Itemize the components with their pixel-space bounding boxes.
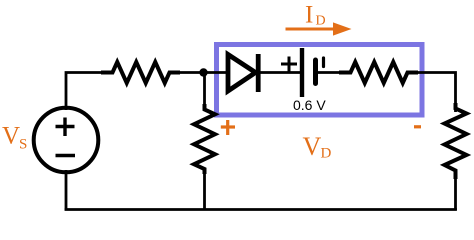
node junction dot (199, 68, 207, 76)
wire top-left vertical from source to top rail (66, 73, 104, 111)
svg-text:V: V (2, 123, 20, 150)
wire diode cathode to battery (258, 71, 302, 74)
diode D1 (228, 54, 258, 92)
battery plus sign (281, 57, 297, 72)
resistor R2 (diode model series resistance) (341, 62, 416, 83)
svg-text:0.6 V: 0.6 V (293, 97, 326, 113)
battery 0.6 V (long plate) (300, 48, 304, 97)
wire source bottom to bottom rail (65, 170, 68, 211)
diode model box (purple) (217, 45, 423, 116)
svg-text:V: V (303, 132, 322, 161)
wire battery to R2 (317, 71, 344, 74)
wire R4 to bottom rail (454, 171, 457, 210)
wire from R1 to diode anode (174, 71, 229, 74)
bottom rail wire (65, 208, 457, 211)
polarity minus (VD) (414, 125, 421, 128)
resistor R3 (middle load, vertical) (194, 106, 215, 172)
polarity plus (VD) (221, 120, 235, 135)
VS minus sign (56, 154, 76, 157)
svg-text:D: D (321, 146, 332, 162)
voltage source VS (34, 108, 99, 173)
svg-text:I: I (305, 2, 313, 29)
svg-text:D: D (316, 14, 326, 29)
resistor R1 (series resistor, top left) (103, 62, 178, 83)
wire node to middle resistor R3 (203, 73, 206, 111)
wire R3 to bottom rail (203, 168, 206, 210)
wire R2 to right branch (down to R4) (413, 73, 456, 113)
VS plus sign (56, 118, 75, 137)
battery minus tick (322, 58, 325, 67)
svg-text:S: S (19, 137, 27, 153)
current arrow ID (286, 28, 337, 31)
battery 0.6 V (short plate) (313, 60, 318, 84)
resistor R4 (right load, vertical) (445, 105, 467, 177)
